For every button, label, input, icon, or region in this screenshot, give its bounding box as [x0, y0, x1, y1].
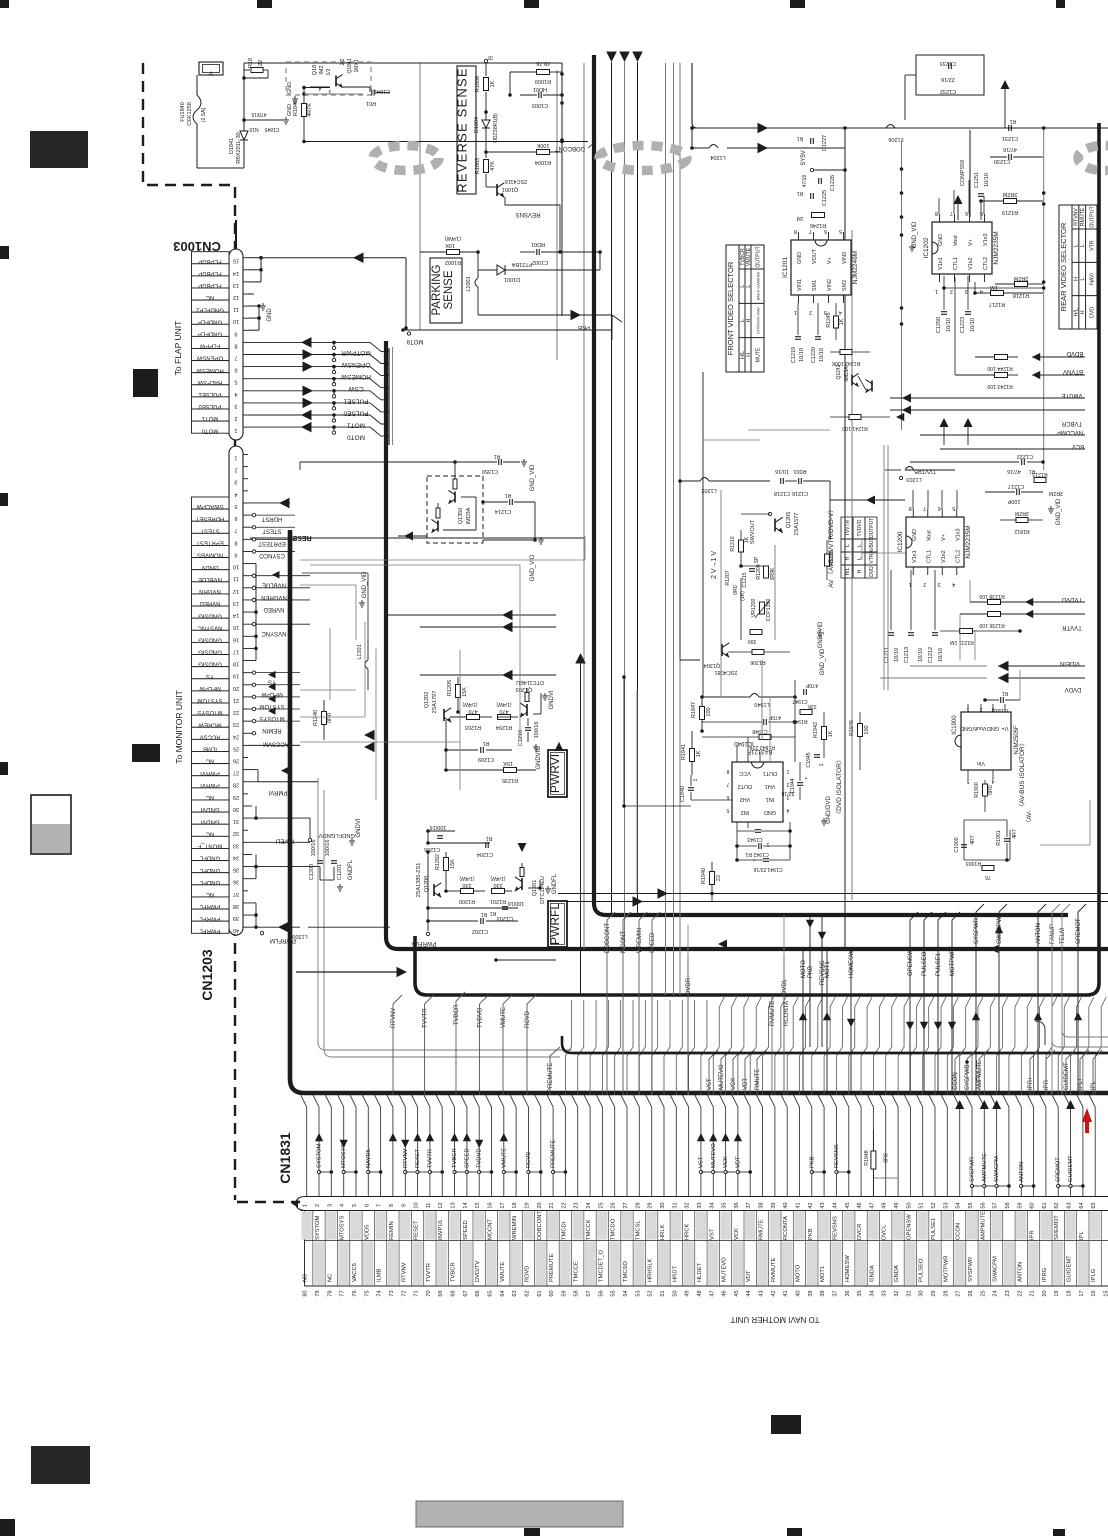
- svg-text:37: 37: [832, 1290, 838, 1296]
- capacitor C1945 1: [806, 752, 825, 767]
- svg-text:BTVNV: BTVNV: [1063, 368, 1083, 374]
- svg-text:SYSPWB: SYSPWB: [965, 1064, 971, 1090]
- gray dashed blob center: [599, 146, 687, 171]
- svg-text:1K: 1K: [839, 318, 845, 325]
- capacitor C1002 RD01: [476, 241, 602, 265]
- wire mesh mid-left verticals: [300, 622, 376, 800]
- ground GND near R1845: [287, 82, 298, 103]
- svg-text:OUTPUT: OUTPUT: [869, 518, 875, 539]
- svg-text:C1003: C1003: [532, 102, 548, 108]
- svg-text:TMCDI: TMCDI: [561, 1221, 567, 1240]
- svg-text:〈AV-: 〈AV-: [1026, 810, 1033, 825]
- svg-text:STEST: STEST: [262, 528, 282, 534]
- arrow right y972: [296, 967, 407, 978]
- svg-text:R1: R1: [1010, 118, 1017, 124]
- capacitor C1209 R1: [444, 720, 512, 768]
- svg-text:470: 470: [468, 708, 477, 714]
- svg-text:62: 62: [524, 1290, 530, 1296]
- svg-text:R1: R1: [481, 911, 488, 917]
- svg-text:22/16: 22/16: [781, 790, 794, 796]
- svg-text:54: 54: [956, 1202, 962, 1208]
- svg-text:C1200: C1200: [309, 864, 315, 880]
- svg-text:40: 40: [233, 927, 239, 933]
- wire CN1003 pin 7 OPENSW: [248, 349, 370, 368]
- svg-text:GNDV: GNDV: [201, 564, 218, 570]
- svg-text:GND_VID: GND_VID: [1056, 498, 1062, 525]
- inductor L1206: [886, 125, 904, 143]
- capacitor C1003 HD01: [520, 86, 562, 108]
- svg-text:PULSE1: PULSE1: [931, 1218, 937, 1240]
- capacitor C1942 R1: [735, 843, 792, 857]
- svg-text:C1214: C1214: [495, 508, 511, 514]
- table FRONT VIDEO SELECTOR: [726, 245, 764, 372]
- svg-text:MOT0: MOT0: [201, 427, 218, 433]
- svg-text:13: 13: [233, 282, 239, 288]
- svg-text:SYSTOM: SYSTOM: [315, 1215, 321, 1240]
- svg-text:1K: 1K: [828, 730, 834, 737]
- svg-text:NAVD5: NAVD5: [366, 1149, 372, 1168]
- svg-text:4: 4: [839, 309, 842, 315]
- svg-text:Q1205: Q1205: [786, 512, 792, 529]
- svg-text:26: 26: [611, 1202, 617, 1208]
- bus B3 thick vertical x290 to horizontal y1093: [290, 530, 1108, 1093]
- svg-text:TVDVD: TVDVD: [1061, 596, 1082, 602]
- capacitor C1941 22/16: [735, 858, 790, 872]
- wire lower right corner mesh: [960, 580, 1020, 700]
- svg-text:VGND: VGND: [960, 725, 976, 731]
- svg-text:C1841: C1841: [374, 88, 390, 94]
- svg-text:GNDFL: GNDFL: [552, 873, 558, 894]
- svg-text:25: 25: [233, 745, 239, 751]
- wire fanout bus to CN1831: [301, 1047, 1101, 1196]
- wire MOT8 horizontal: [401, 328, 612, 344]
- photo placeholder block left upper: [30, 131, 88, 168]
- svg-text:R1204: R1204: [496, 724, 512, 730]
- svg-text:59: 59: [1017, 1202, 1023, 1208]
- svg-text:10K: 10K: [445, 242, 455, 248]
- svg-text:43: 43: [759, 1290, 765, 1296]
- svg-text:DVDR: DVDR: [686, 977, 692, 995]
- capacitors C1211 C1213 C1212 10/10: [884, 570, 944, 663]
- svg-text:SM2: SM2: [842, 280, 848, 291]
- svg-text:SYSPWR: SYSPWR: [968, 1257, 974, 1282]
- svg-text:R1847: R1847: [691, 702, 697, 718]
- wire CN1003 pin 8 MOTPWR: [248, 337, 371, 356]
- svg-text:REVSNS: REVSNS: [516, 211, 541, 217]
- wire vertical x1043: [1042, 126, 1046, 470]
- svg-text:C1225: C1225: [822, 190, 828, 206]
- svg-text:15: 15: [233, 258, 239, 264]
- svg-text:4R7K: 4R7K: [307, 103, 313, 117]
- svg-text:〈DVD ISOLATOR〉: 〈DVD ISOLATOR〉: [835, 757, 843, 818]
- capacitor C1205 100/16: [424, 824, 490, 852]
- svg-text:41: 41: [796, 1202, 802, 1208]
- svg-text:BDVD: BDVD: [1066, 350, 1083, 356]
- svg-text:CTL2: CTL2: [955, 550, 961, 563]
- svg-text:R1845: R1845: [293, 100, 299, 116]
- svg-text:To MONITOR UNIT: To MONITOR UNIT: [174, 690, 184, 764]
- svg-text:GND: GND: [287, 82, 293, 94]
- svg-text:Q1204: Q1204: [704, 662, 721, 668]
- svg-text:58: 58: [574, 1290, 580, 1296]
- svg-text:76: 76: [985, 874, 991, 880]
- svg-text:20: 20: [233, 685, 239, 691]
- capacitor C1900 cluster: [954, 820, 1010, 880]
- svg-text:18: 18: [512, 1202, 518, 1208]
- svg-text:100: 100: [864, 725, 870, 734]
- transistor Q1205 2SA1577: [750, 512, 800, 544]
- svg-text:3: 3: [327, 1204, 333, 1207]
- svg-text:47: 47: [709, 1290, 715, 1296]
- wire CN1203 pin 7 STEST: [248, 526, 295, 534]
- svg-text:OUT2: OUT2: [738, 783, 753, 789]
- svg-text:PREMUTE: PREMUTE: [551, 1140, 557, 1168]
- svg-text:GND: GND: [797, 252, 803, 264]
- svg-text:REVERSE SENSE: REVERSE SENSE: [455, 67, 470, 192]
- svg-text:MOTO: MOTO: [801, 960, 807, 978]
- svg-text:VST: VST: [698, 1156, 704, 1168]
- resistor R1004 100K: [484, 142, 562, 165]
- pin circle R reverse: [484, 55, 495, 63]
- wire R1940 bottom to bus: [710, 892, 714, 902]
- svg-text:47/16: 47/16: [1003, 146, 1017, 152]
- svg-text:7: 7: [377, 1204, 383, 1207]
- svg-text:48: 48: [882, 1202, 888, 1208]
- svg-text:R1843 22K: R1843 22K: [748, 744, 774, 750]
- svg-text:MONT_F: MONT_F: [197, 843, 222, 849]
- svg-text:C1940: C1940: [680, 786, 686, 802]
- svg-text:GNDA: GNDA: [894, 1265, 900, 1282]
- svg-text:NVBLUE: NVBLUE: [262, 582, 286, 588]
- svg-text:HRDT: HRDT: [672, 1265, 678, 1282]
- svg-text:R01: R01: [366, 100, 376, 106]
- label GND_VID right column: [1048, 498, 1062, 525]
- svg-text:VCK: VCK: [723, 1156, 729, 1168]
- up arrow into PWRVI: [555, 742, 564, 751]
- svg-text:38: 38: [233, 903, 239, 909]
- svg-text:47/16: 47/16: [1007, 468, 1021, 474]
- svg-text:Q1203: Q1203: [516, 686, 533, 692]
- svg-text:OUTPUT: OUTPUT: [1089, 206, 1095, 228]
- svg-text:1K: 1K: [696, 750, 702, 757]
- svg-text:PULSEO: PULSEO: [919, 1258, 925, 1282]
- connector CN1831 upper row labels: [315, 1211, 1085, 1240]
- svg-text:FLPBUP: FLPBUP: [198, 282, 221, 288]
- op-amp IC1201 NJM2246M: [782, 228, 859, 315]
- svg-text:NC: NC: [303, 1274, 309, 1282]
- svg-text:56: 56: [598, 1290, 604, 1296]
- svg-text:RMUTE: RMUTE: [755, 1069, 761, 1090]
- svg-text:GNDVI: GNDVI: [549, 690, 555, 709]
- resistor R1202 15K: [435, 852, 456, 889]
- svg-text:66: 66: [475, 1290, 481, 1296]
- svg-text:SY5V: SY5V: [801, 150, 807, 165]
- svg-text:TELM: TELM: [1060, 928, 1066, 944]
- svg-text:CTL1: CTL1: [926, 550, 932, 563]
- svg-text:MUTEVO: MUTEVO: [722, 1257, 728, 1282]
- svg-text:11: 11: [233, 306, 239, 312]
- svg-text:CN1203: CN1203: [199, 949, 215, 1001]
- svg-text:L1202: L1202: [701, 487, 716, 493]
- svg-text:TVVTR: TVVTR: [845, 519, 851, 536]
- registration mark bottom x787: [787, 1528, 802, 1536]
- svg-text:13: 13: [233, 600, 239, 606]
- svg-text:41: 41: [783, 1290, 789, 1296]
- svg-text:REMIN: REMIN: [262, 727, 281, 733]
- resistor R1204 470: [496, 701, 518, 730]
- svg-text:ANTON: ANTON: [1019, 1162, 1025, 1182]
- svg-text:3: 3: [328, 88, 331, 94]
- svg-text:100/16: 100/16: [325, 840, 331, 857]
- svg-text:GNDFLGNDVI: GNDFLGNDVI: [317, 832, 355, 838]
- wire top arrows x611 x624 x637: [606, 52, 643, 950]
- resistor R1900 0R0: [974, 780, 994, 812]
- svg-text:51: 51: [660, 1290, 666, 1296]
- wires VST MUTEVO VCK VDT RMUTE labels: [707, 1050, 766, 1095]
- table AV grid: [841, 517, 877, 578]
- svg-text:10/10: 10/10: [946, 318, 952, 332]
- To FLAP UNIT label: [173, 321, 183, 376]
- svg-text:PWRFLA: PWRFLA: [411, 940, 436, 946]
- svg-text:BACK CAMERA: BACK CAMERA: [756, 272, 761, 301]
- up arrows x944 x968: [940, 418, 973, 445]
- wire CN1003 pin 6 HOMESW: [248, 361, 371, 380]
- ground GND_VID lower: [483, 537, 544, 581]
- svg-text:TVDVD: TVDVD: [857, 519, 863, 536]
- wire PKB MOT8 drop: [611, 315, 613, 340]
- svg-text:57: 57: [993, 1202, 999, 1208]
- svg-text:R1: R1: [483, 740, 490, 746]
- svg-text:10/10: 10/10: [799, 348, 805, 362]
- svg-text:3: 3: [234, 479, 237, 485]
- capacitor C1215 SP: [742, 556, 760, 588]
- svg-text:1: 1: [234, 455, 237, 461]
- svg-text:C1212: C1212: [928, 647, 934, 663]
- svg-text:6: 6: [726, 794, 729, 800]
- svg-text:PWRVI: PWRVI: [548, 754, 562, 793]
- label GND_VID IC1202: [909, 221, 918, 251]
- svg-text:C1202: C1202: [472, 928, 488, 934]
- svg-text:GND_VID: GND_VID: [912, 221, 918, 248]
- svg-text:MOT8: MOT8: [406, 338, 423, 344]
- svg-text:CTL2: CTL2: [983, 257, 989, 270]
- svg-text:(1/4W): (1/4W): [490, 875, 505, 881]
- svg-text:PULSE1: PULSE1: [936, 952, 942, 976]
- svg-text:R1941: R1941: [681, 744, 687, 760]
- svg-text:R1: R1: [797, 135, 804, 141]
- svg-text:SYSTOM: SYSTOM: [317, 1143, 323, 1168]
- svg-text:D1004: D1004: [474, 117, 480, 133]
- svg-text:MOT0: MOT0: [347, 434, 365, 441]
- svg-text:3: 3: [234, 403, 237, 409]
- resistor R1235 15K: [444, 760, 536, 783]
- svg-text:R1008: R1008: [475, 76, 481, 92]
- resistor R1217 1M: [973, 284, 1043, 307]
- svg-text:ANTON: ANTON: [1017, 1262, 1023, 1282]
- wires ANTON FANUP TELM SREMOT: [1034, 904, 1086, 1095]
- capacitor C1204 R1: [455, 835, 530, 857]
- svg-text:V1n2: V1n2: [968, 257, 974, 270]
- resistor R1211 1M: [940, 629, 1022, 646]
- resistor R1845 4R7K: [293, 86, 330, 144]
- svg-text:14: 14: [233, 612, 239, 618]
- svg-text:RCONTA: RCONTA: [784, 1001, 790, 1026]
- resistor R1200 330: [446, 875, 485, 904]
- module dashed box Q1350 IMD3A: [427, 476, 483, 543]
- svg-text:HALFSW: HALFSW: [197, 379, 222, 385]
- svg-text:V+: V+: [968, 239, 974, 246]
- resistor R1207 0R0 (1K): [725, 570, 746, 601]
- svg-text:HDRST: HDRST: [261, 516, 282, 522]
- transistor Q1001 2SC4116: [486, 178, 527, 197]
- svg-text:CN1831: CN1831: [277, 1132, 293, 1184]
- svg-text:VCK: VCK: [734, 1228, 740, 1240]
- svg-text:VH1: VH1: [765, 783, 776, 789]
- svg-text:RD01: RD01: [531, 241, 545, 247]
- svg-text:63: 63: [512, 1290, 518, 1296]
- svg-text:NC: NC: [205, 830, 214, 836]
- svg-text:44: 44: [746, 1290, 752, 1296]
- svg-text:R1245: R1245: [826, 312, 832, 327]
- svg-text:VDD5: VDD5: [364, 1225, 370, 1240]
- svg-text:C1209: C1209: [478, 756, 494, 762]
- TO NAVI MOTHER UNIT label: [730, 1315, 819, 1324]
- box PWRFL: [548, 901, 567, 947]
- svg-text:75: 75: [364, 1290, 370, 1296]
- svg-text:15: 15: [1104, 1290, 1108, 1296]
- svg-text:14: 14: [233, 270, 239, 276]
- svg-text:V1n3: V1n3: [983, 233, 989, 246]
- svg-text:2: 2: [234, 415, 237, 421]
- ground GND_VID 2V cluster: [817, 630, 826, 675]
- svg-text:34: 34: [869, 1290, 875, 1296]
- svg-text:R1210: R1210: [730, 536, 736, 551]
- svg-text:R1211 1M: R1211 1M: [950, 639, 974, 645]
- svg-text:VCC: VCC: [739, 770, 751, 776]
- wire vertical x665 x673 x680: [666, 63, 681, 995]
- svg-text:76: 76: [352, 1290, 358, 1296]
- svg-text:PKB: PKB: [808, 1228, 814, 1240]
- svg-text:C1945: C1945: [806, 752, 812, 767]
- svg-text:R1900: R1900: [974, 782, 980, 797]
- svg-text:53: 53: [943, 1202, 949, 1208]
- svg-text:15K: 15K: [503, 760, 513, 766]
- svg-text:R1: R1: [494, 453, 501, 459]
- svg-text:VMUTE: VMUTE: [500, 1262, 506, 1282]
- svg-text:STEST: STEST: [200, 527, 220, 533]
- svg-text:2R2M: 2R2M: [1015, 510, 1029, 516]
- wires IC1940 bottom: [737, 822, 790, 860]
- wires OPENSW PULSEO PULSE1 MOTPWR with down arrows: [906, 912, 960, 1095]
- svg-text:22K: 22K: [807, 703, 817, 709]
- wires GNDFL group capacitors C1200 C1201: [248, 840, 354, 891]
- svg-text:22/16: 22/16: [941, 76, 955, 82]
- svg-text:2SC4081: 2SC4081: [715, 669, 738, 675]
- REVERSE SENSE label box: [455, 66, 477, 194]
- svg-text:22: 22: [716, 875, 722, 881]
- svg-text:53: 53: [635, 1290, 641, 1296]
- svg-text:D1001: D1001: [504, 276, 520, 282]
- svg-text:12: 12: [438, 1202, 444, 1208]
- svg-text:12: 12: [233, 294, 239, 300]
- svg-text:42: 42: [771, 1290, 777, 1296]
- svg-text:28: 28: [943, 1290, 949, 1296]
- resistor R1245 1K: [826, 303, 845, 340]
- svg-text:GND: GND: [938, 234, 944, 246]
- wire IC1202 pin stubs up: [939, 180, 984, 214]
- label GND/DVD: [821, 796, 832, 825]
- svg-text:IC1201: IC1201: [782, 257, 789, 278]
- svg-text:1: 1: [786, 768, 789, 774]
- svg-text:2/2: 2/2: [340, 58, 346, 65]
- svg-text:VTR/DVD-V/AV: VTR/DVD-V/AV: [756, 307, 761, 334]
- wire arrow left y500: [830, 496, 905, 505]
- svg-text:OPENSW: OPENSW: [908, 949, 914, 976]
- svg-text:RTVNV: RTVNV: [391, 1008, 397, 1028]
- svg-text:TVBCR: TVBCR: [451, 1262, 457, 1282]
- wires GNDSIG group: [248, 564, 258, 661]
- svg-text:4: 4: [318, 85, 321, 91]
- svg-text:MCREW: MCREW: [198, 721, 222, 727]
- svg-text:R1: R1: [486, 835, 493, 841]
- svg-text:0R0: 0R0: [988, 785, 994, 795]
- wires DOBCONT MCONT WREMIN SPEED: [605, 912, 660, 1095]
- svg-text:56: 56: [980, 1202, 986, 1208]
- svg-text:R1940: R1940: [701, 868, 707, 884]
- wire horizontals upper right area: [703, 430, 830, 440]
- svg-text:NVRED: NVRED: [199, 600, 221, 606]
- resistor R1942 1K: [813, 712, 834, 758]
- svg-text:PWRFL: PWRFL: [199, 915, 221, 921]
- svg-text:4: 4: [234, 391, 237, 397]
- wires ACCSV ILMB PWRVI: [248, 730, 375, 795]
- svg-text:IPL+: IPL+: [1078, 1077, 1084, 1090]
- svg-text:R1812: R1812: [1014, 528, 1029, 534]
- svg-text:7: 7: [809, 228, 812, 234]
- net NVCOMP right edge: [920, 429, 1085, 435]
- svg-text:1K: 1K: [490, 80, 496, 87]
- svg-text:34: 34: [233, 854, 239, 860]
- svg-text:25: 25: [598, 1202, 604, 1208]
- wire gray parallel B2: [392, 347, 394, 445]
- connector CN1003 label: [173, 239, 221, 254]
- svg-text:4R7: 4R7: [1012, 829, 1018, 839]
- wire MONT_F INVELI: [248, 837, 310, 843]
- svg-text:EPRTEST: EPRTEST: [258, 540, 286, 546]
- svg-text:MOTO: MOTO: [796, 1264, 802, 1282]
- svg-text:C1213: C1213: [904, 647, 910, 663]
- svg-text:38: 38: [820, 1290, 826, 1296]
- svg-text:15K: 15K: [462, 687, 468, 697]
- svg-text:29: 29: [931, 1290, 937, 1296]
- svg-text:72: 72: [401, 1290, 407, 1296]
- svg-text:GUIDEMT: GUIDEMT: [1068, 1155, 1074, 1182]
- connector CN1831 body: [292, 1197, 1108, 1297]
- svg-text:2SC4116: 2SC4116: [505, 178, 528, 184]
- svg-text:IPR+: IPR+: [1028, 1076, 1034, 1090]
- svg-text:19: 19: [1054, 1290, 1060, 1296]
- svg-text:R1244 100: R1244 100: [987, 365, 1012, 371]
- svg-text:12: 12: [233, 588, 239, 594]
- registration mark left y246: [0, 246, 9, 259]
- svg-text:100/16: 100/16: [534, 722, 540, 739]
- svg-text:27: 27: [623, 1202, 629, 1208]
- wires GNDVI group: [248, 806, 362, 845]
- wire vertical x845 SY5V branch: [845, 128, 852, 420]
- svg-text:0R0: 0R0: [884, 1153, 890, 1163]
- svg-text:45: 45: [734, 1290, 740, 1296]
- connector CN1831 label: [277, 1132, 293, 1184]
